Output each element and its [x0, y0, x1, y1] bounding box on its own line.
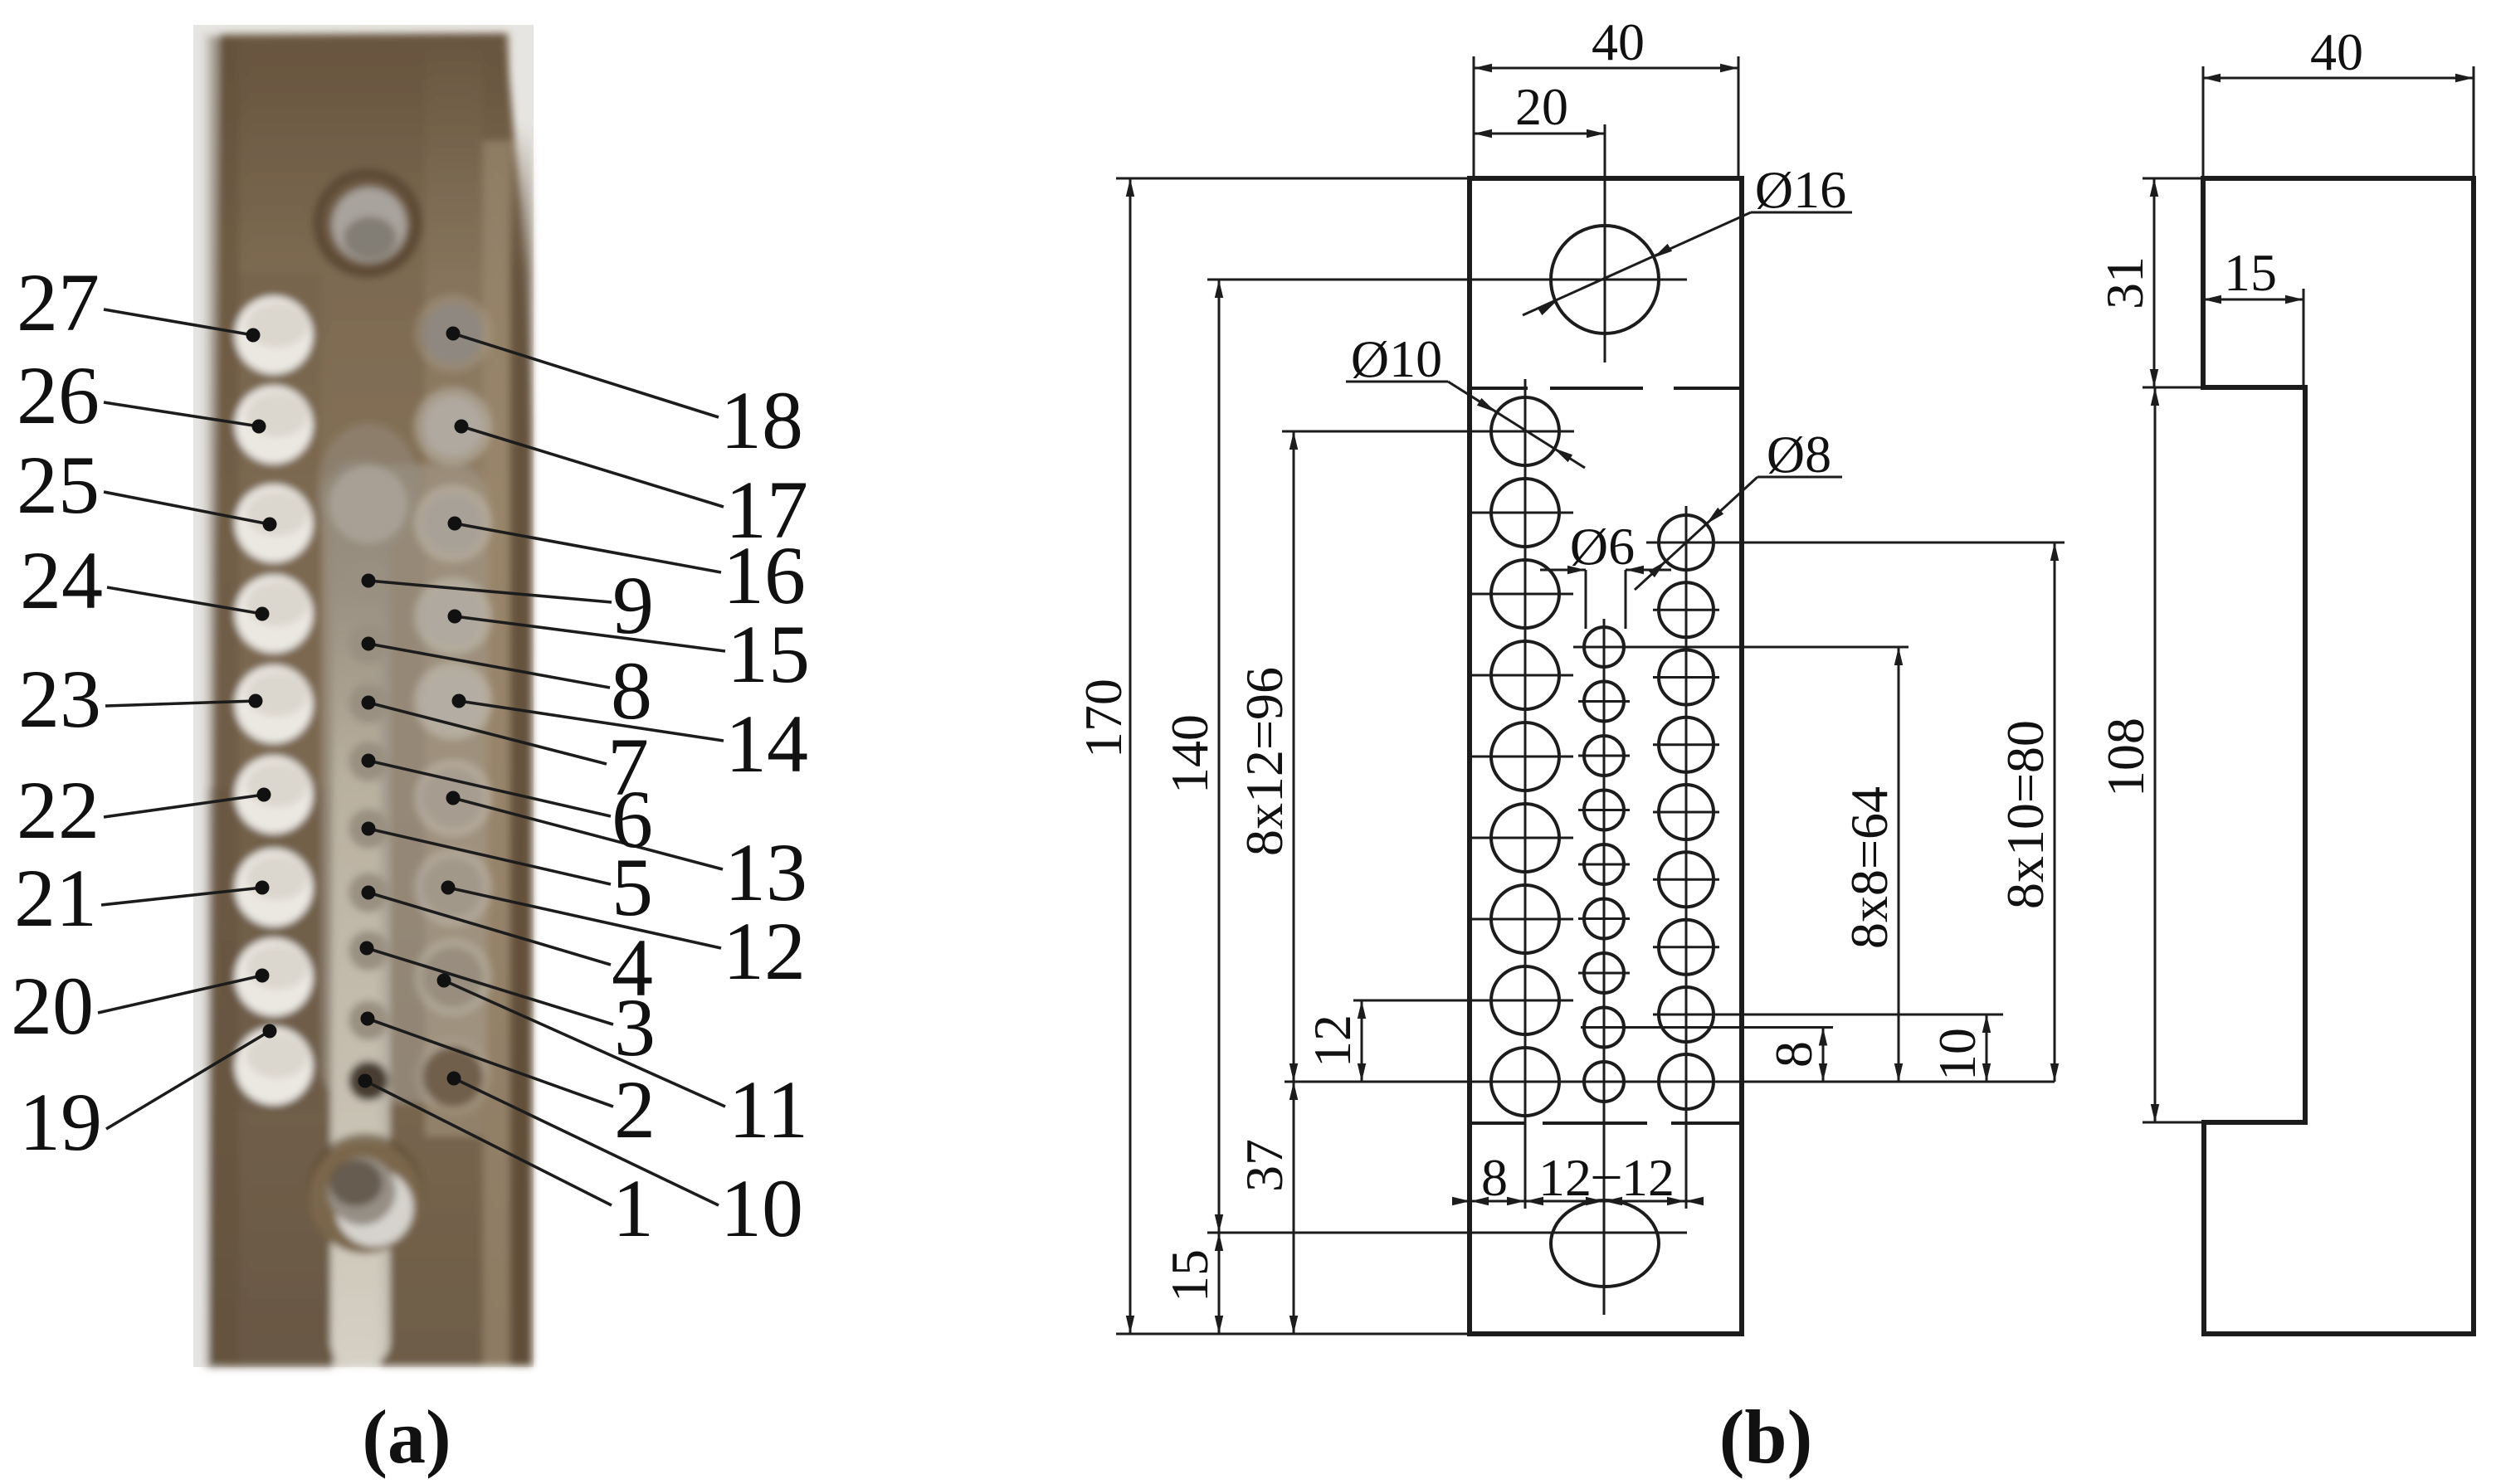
- svg-text:10: 10: [1928, 1028, 1987, 1081]
- dashed channel boundary bottom: [1470, 1122, 1524, 1125]
- side view profile: [2203, 178, 2474, 1334]
- leader label 9: [368, 581, 612, 602]
- dim 108 side: [2154, 387, 2157, 1122]
- leader label 7: [368, 703, 607, 764]
- svg-text:5: 5: [612, 841, 653, 933]
- svg-text:8x8=64: 8x8=64: [1840, 786, 1899, 949]
- dim 10 (pitch): [1986, 1014, 1988, 1082]
- svg-text:20: 20: [11, 960, 94, 1052]
- leader label 11: [444, 980, 725, 1107]
- svg-text:Ø10: Ø10: [1351, 329, 1442, 388]
- leader label 20: [98, 976, 262, 1013]
- svg-text:170: 170: [1074, 679, 1133, 758]
- svg-text:12: 12: [1538, 1148, 1592, 1207]
- svg-text:8: 8: [1764, 1041, 1823, 1068]
- svg-text:10: 10: [720, 1162, 803, 1254]
- side extension lines: [2143, 178, 2203, 180]
- right column holes 18..10: [414, 294, 492, 372]
- leader label 13: [453, 798, 723, 869]
- svg-text:31: 31: [2095, 256, 2154, 309]
- svg-text:2: 2: [614, 1063, 656, 1156]
- leader label 24: [107, 587, 262, 614]
- bottom screw hole: [307, 1133, 423, 1249]
- extension lines: [1116, 178, 1470, 180]
- svg-text:12: 12: [723, 905, 806, 997]
- leader label 21: [101, 888, 262, 905]
- photo of test plate: [11, 25, 810, 1369]
- dim 12 (pitch): [1361, 1000, 1363, 1082]
- svg-text:19: 19: [19, 1076, 102, 1168]
- leader label 27: [104, 309, 253, 335]
- leader label 15: [455, 616, 725, 651]
- leader label 19: [106, 1031, 270, 1129]
- dim 8x12=96 / 37: [1293, 431, 1295, 1334]
- svg-text:20: 20: [1515, 77, 1568, 136]
- leader label 5: [368, 829, 611, 884]
- dim 40 side: [2202, 77, 2474, 80]
- dim 31 side: [2153, 178, 2156, 387]
- svg-text:140: 140: [1160, 714, 1219, 794]
- middle column holes 9..1: [349, 561, 388, 601]
- svg-text:12: 12: [1621, 1148, 1675, 1207]
- svg-text:40: 40: [1592, 12, 1645, 71]
- svg-text:8: 8: [1481, 1148, 1508, 1207]
- dim 8 12-12 chain: [1457, 1200, 1698, 1203]
- milled channel: [322, 465, 488, 1103]
- leader label 25: [104, 492, 270, 524]
- svg-text:14: 14: [725, 698, 808, 790]
- dim 8 (pitch): [1822, 1028, 1825, 1083]
- svg-text:24: 24: [20, 534, 103, 626]
- leader label 3: [367, 948, 613, 1024]
- svg-text:12: 12: [1303, 1014, 1362, 1068]
- svg-text:3: 3: [614, 981, 656, 1073]
- leader label 22: [104, 795, 264, 817]
- leader O10: [1346, 381, 1448, 383]
- svg-text:21: 21: [14, 852, 97, 944]
- leader label 17: [461, 426, 724, 507]
- dim 8x8=64: [1898, 647, 1900, 1082]
- dim 170: [1129, 178, 1132, 1334]
- O10 holes column: [1491, 397, 1559, 465]
- leader label 6: [368, 761, 611, 816]
- svg-text:26: 26: [17, 349, 100, 441]
- svg-text:Ø6: Ø6: [1570, 517, 1635, 576]
- svg-text:Ø16: Ø16: [1755, 160, 1846, 219]
- dim O6: [1585, 570, 1587, 629]
- leader label 12: [448, 888, 721, 948]
- leader label 18: [453, 333, 719, 417]
- svg-text:8x12=96: 8x12=96: [1235, 667, 1294, 856]
- svg-text:–: –: [1592, 1142, 1621, 1201]
- leader label 10: [454, 1078, 719, 1205]
- O6 holes column: [1584, 627, 1624, 667]
- svg-text:11: 11: [729, 1063, 808, 1156]
- svg-text:23: 23: [18, 653, 101, 745]
- leader O8: [1757, 476, 1842, 479]
- svg-text:15: 15: [2224, 243, 2277, 302]
- hole O16 top: [1551, 226, 1659, 333]
- svg-text:108: 108: [2096, 718, 2155, 797]
- svg-text:37: 37: [1235, 1139, 1294, 1192]
- leader label 1: [365, 1081, 612, 1205]
- leader label 16: [455, 523, 721, 572]
- centerlines: [1604, 124, 1606, 362]
- metal plate: [209, 33, 532, 1365]
- hole O16 bottom (ellipse): [1551, 1200, 1659, 1287]
- leader label 4: [368, 893, 611, 965]
- dim 15 side: [2203, 299, 2303, 301]
- plug disk: [329, 465, 407, 543]
- dim 20 top: [1474, 133, 1605, 135]
- svg-text:1: 1: [612, 1162, 654, 1254]
- leader label 26: [104, 402, 259, 426]
- svg-text:25: 25: [17, 439, 100, 531]
- svg-text:40: 40: [2310, 22, 2363, 81]
- svg-text:27: 27: [17, 256, 100, 348]
- svg-text:(a): (a): [362, 1394, 451, 1479]
- svg-text:15: 15: [727, 608, 810, 700]
- left column holes 27..19: [235, 296, 313, 374]
- dim 8x10=80: [2054, 543, 2056, 1082]
- svg-text:18: 18: [720, 374, 803, 466]
- dim 140 / 15: [1218, 280, 1221, 1334]
- svg-text:(b): (b): [1719, 1394, 1812, 1479]
- front view plate outline: [1470, 178, 1742, 1334]
- leader label 23: [105, 701, 256, 706]
- svg-text:22: 22: [17, 764, 100, 856]
- dashed channel boundary top: [1470, 387, 1528, 390]
- leader O16: [1751, 212, 1852, 214]
- leader label 8: [368, 644, 610, 688]
- svg-text:Ø8: Ø8: [1767, 425, 1831, 484]
- svg-text:9: 9: [612, 559, 654, 651]
- O8 holes column: [1659, 515, 1714, 570]
- svg-text:15: 15: [1160, 1249, 1219, 1302]
- dim 40 top: [1474, 67, 1738, 70]
- leader label 2: [368, 1019, 613, 1107]
- leader label 14: [459, 701, 724, 741]
- top screw hole: [313, 168, 422, 278]
- svg-text:8x10=80: 8x10=80: [1996, 720, 2055, 909]
